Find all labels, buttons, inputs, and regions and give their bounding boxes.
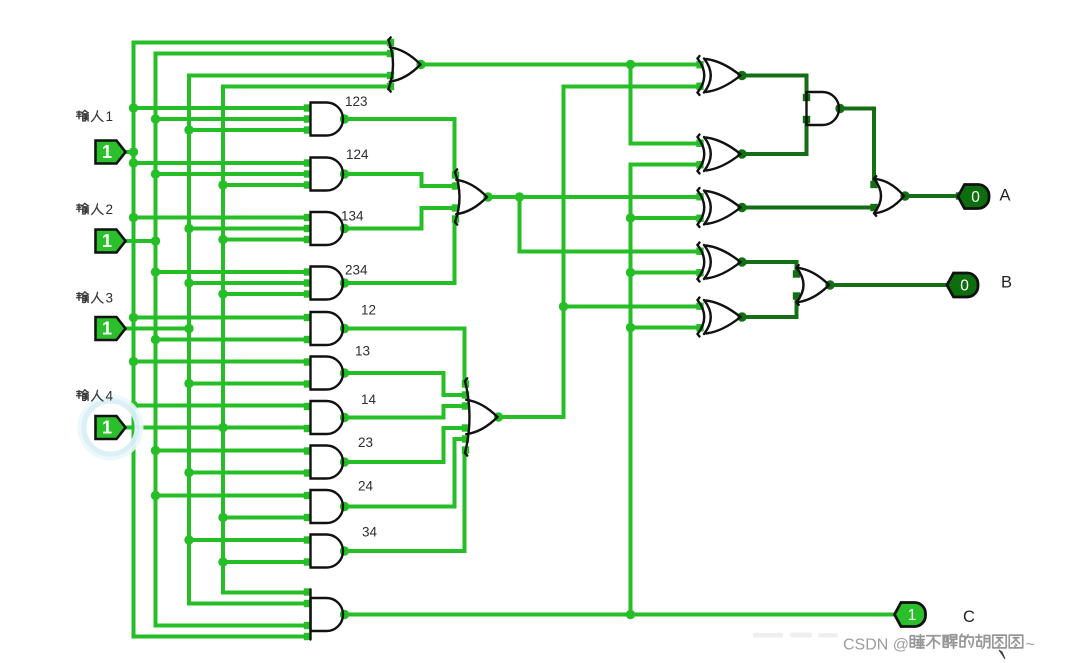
bright port squares <box>304 39 704 640</box>
wire node (630.5,327.5) to XOR5 in2 <box>631 326 700 330</box>
input pin 输入1 <box>96 141 126 164</box>
dark port squares <box>793 94 963 300</box>
gate output nodes <box>340 60 503 619</box>
wire <box>223 292 310 296</box>
wire <box>156 270 310 274</box>
wire AND124 out to OR1 in2 <box>343 174 455 186</box>
or gate OR2 (6-input) <box>465 381 470 453</box>
faint smudge band <box>753 633 838 638</box>
dark output nodes <box>737 71 909 322</box>
and gate 123 <box>311 103 343 136</box>
xor gate XOR5 <box>698 300 705 334</box>
svg-text:13: 13 <box>355 344 370 359</box>
wire <box>189 538 310 542</box>
svg-text:1: 1 <box>102 142 112 162</box>
wire <box>134 360 310 364</box>
output pin A <box>958 185 989 209</box>
svg-text:3: 3 <box>106 291 114 306</box>
wire <box>156 117 310 121</box>
wire AND134 out to OR1 in3 <box>343 208 455 229</box>
svg-text:234: 234 <box>345 263 368 278</box>
wire input2 bus (V2) <box>156 54 390 626</box>
output pin C <box>895 603 926 627</box>
svg-text:123: 123 <box>345 94 368 109</box>
and gate 124 <box>311 158 344 191</box>
input pin 输入2 <box>96 230 126 253</box>
and gate C (4-input) <box>311 598 344 631</box>
and gate 24 <box>311 490 344 523</box>
wire OR-top out to XOR1 in1 <box>421 63 700 67</box>
wire <box>156 494 310 498</box>
and gate 34 <box>311 535 344 568</box>
wire input4 bus (V4) <box>223 87 390 593</box>
svg-text:0: 0 <box>971 189 980 206</box>
svg-text:~: ~ <box>1026 637 1035 654</box>
wire XOR3 out to OR-A in2 <box>741 206 875 210</box>
wire AND-C out to pin C <box>343 613 897 617</box>
wire C net vertical up to XOR2 in2 <box>631 165 700 615</box>
svg-text:1: 1 <box>102 319 112 339</box>
and gate 134 <box>311 212 344 245</box>
svg-text:CSDN @: CSDN @ <box>843 637 909 654</box>
svg-text:14: 14 <box>361 392 377 407</box>
or gate U-B <box>797 268 804 302</box>
svg-text:1: 1 <box>102 418 112 438</box>
wire OR1 out to XOR3 in1 <box>487 195 700 199</box>
wire node at (519.5,197) down to XOR4 in1 <box>520 197 700 252</box>
wire OR2 out up to XOR1 in2 <box>498 87 700 418</box>
wire input3 bus (V3) <box>189 76 390 604</box>
wire node (630.5,272.5) to XOR4 in2 <box>631 271 700 275</box>
label 输入3 <box>77 292 89 303</box>
and gate 234 <box>311 267 344 300</box>
input pin 输入3 <box>96 317 126 340</box>
wire AND23 out to OR2 in4 <box>343 428 465 462</box>
wire <box>223 183 310 187</box>
and gate 23 <box>311 446 344 479</box>
wire <box>223 516 310 520</box>
svg-text:34: 34 <box>362 525 378 540</box>
wire XOR2 out to AND-A in2 <box>741 120 807 155</box>
wire AND34 out to OR2 in6 <box>343 450 465 551</box>
svg-text:C: C <box>963 608 975 626</box>
wire <box>189 471 310 475</box>
or gate OR-top (4-input) <box>389 40 394 89</box>
svg-text:2: 2 <box>106 202 114 217</box>
wire AND234 out to OR1 in4 <box>343 219 455 283</box>
wire junctions <box>129 60 635 619</box>
wire <box>223 238 310 242</box>
xor gate XOR2 <box>698 137 705 171</box>
wire AND-A out to OR-A in1 <box>839 109 874 185</box>
xor gate XOR3 <box>698 191 705 225</box>
wire <box>189 382 310 386</box>
wire input1 bus (V1) <box>134 43 390 637</box>
wire <box>134 316 310 320</box>
wire XOR1 out to AND-A in1 <box>741 76 807 98</box>
svg-text:12: 12 <box>361 303 376 318</box>
wire AND12 out to OR2 in1 <box>343 329 465 385</box>
wire XOR5 out to OR-B in2 <box>741 296 797 317</box>
wire <box>134 404 310 408</box>
and gate U-A <box>807 92 840 125</box>
wire OR-A out to pin A <box>904 194 960 198</box>
wire <box>223 560 310 564</box>
output pin B <box>947 273 978 297</box>
wire <box>189 281 310 285</box>
wire <box>189 128 310 132</box>
wire pin1 to V1 <box>126 150 134 154</box>
wire node at (563.5,306.5) to XOR5 in1 <box>564 305 700 309</box>
wire XOR4 out to OR-B in1 <box>741 262 797 274</box>
wire AND13 out to OR2 in2 <box>343 373 465 395</box>
or gate U-A2 <box>874 179 881 213</box>
input pin 输入4 <box>96 416 126 439</box>
wire AND14 out to OR2 in3 <box>343 406 465 418</box>
cursor mark <box>999 650 1005 659</box>
wire <box>134 161 310 165</box>
xor gate XOR4 <box>698 245 705 279</box>
svg-text:0: 0 <box>960 278 969 295</box>
wire AND123 out to OR1 in1 <box>343 119 455 175</box>
wire <box>156 338 310 342</box>
wire pin3 to V3 <box>126 327 190 331</box>
wire AND24 out to OR2 in5 <box>343 439 465 507</box>
label 输入4 <box>77 390 89 401</box>
svg-text:1: 1 <box>908 607 917 624</box>
svg-text:134: 134 <box>341 209 364 224</box>
wire <box>134 216 310 220</box>
wire <box>189 227 310 231</box>
label 输入1 <box>77 110 89 121</box>
or gate OR1 (4-input) <box>455 172 460 222</box>
wire <box>134 106 310 110</box>
svg-text:A: A <box>1000 187 1011 205</box>
svg-text:23: 23 <box>358 435 373 450</box>
svg-text:1: 1 <box>106 109 114 124</box>
selection halo around pin 4 <box>84 401 138 455</box>
svg-text:B: B <box>1001 274 1012 292</box>
wire pin4 row to AND14 <box>126 426 310 430</box>
svg-text:1: 1 <box>102 231 112 251</box>
wire node (630.5,218) to XOR3 in2 <box>631 216 700 220</box>
wire pin2 to V2 <box>126 239 156 243</box>
and gate 14 <box>311 401 344 434</box>
wire OR-B out to pin B <box>829 283 950 287</box>
svg-text:4: 4 <box>106 389 114 404</box>
wire <box>156 449 310 453</box>
and gate 12 <box>311 312 344 345</box>
xor gate XOR1 <box>698 59 705 93</box>
svg-text:124: 124 <box>346 147 369 162</box>
wire <box>156 172 310 176</box>
svg-text:24: 24 <box>358 479 374 494</box>
wire node at (630.5,64.5) down to XOR2 in1 <box>631 65 700 144</box>
and gate 13 <box>311 357 344 390</box>
label 输入2 <box>77 203 89 214</box>
